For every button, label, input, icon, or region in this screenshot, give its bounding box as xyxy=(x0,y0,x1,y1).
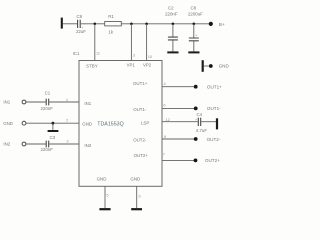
svg-text:GND: GND xyxy=(82,121,92,126)
node OUT1+ terminal xyxy=(194,84,222,89)
svg-text:C9: C9 xyxy=(76,14,82,19)
node OUT2- terminal xyxy=(194,137,221,142)
svg-text:C3: C3 xyxy=(49,135,55,140)
svg-text:VP2: VP2 xyxy=(143,62,152,67)
wire pin 5 to ground xyxy=(104,186,106,208)
capacitor C3 xyxy=(40,135,55,152)
svg-text:B+: B+ xyxy=(219,22,225,27)
svg-text:GND: GND xyxy=(3,121,13,126)
wire C9 to R1 xyxy=(81,23,105,25)
svg-text:9: 9 xyxy=(138,194,140,199)
svg-text:1: 1 xyxy=(66,97,68,102)
node IN2 terminal xyxy=(3,142,26,147)
svg-text:C1: C1 xyxy=(45,91,51,96)
svg-text:C4: C4 xyxy=(196,112,202,117)
ground bar pin 9 xyxy=(131,208,142,210)
svg-text:OUT1+: OUT1+ xyxy=(207,84,222,89)
svg-text:IN1: IN1 xyxy=(3,100,10,105)
wire VP1 drop xyxy=(130,24,132,61)
svg-text:2200uF: 2200uF xyxy=(188,11,203,16)
svg-text:6: 6 xyxy=(163,103,165,108)
svg-text:TDA1553Q: TDA1553Q xyxy=(97,122,124,128)
svg-text:OUT1+: OUT1+ xyxy=(133,81,148,86)
ground bar at C4 xyxy=(216,118,218,129)
svg-text:IN2: IN2 xyxy=(3,142,10,147)
wire IN1 to C1 xyxy=(26,101,46,103)
svg-text:GND: GND xyxy=(97,177,107,182)
node OUT1- terminal xyxy=(194,106,221,111)
svg-text:OUT2-: OUT2- xyxy=(133,138,147,143)
svg-text:3: 3 xyxy=(66,139,68,144)
svg-text:GND: GND xyxy=(219,64,230,69)
wire C4 to ground bar xyxy=(201,121,216,123)
wire pin 6 to OUT1- xyxy=(162,107,194,109)
wire GND terminal xyxy=(204,65,209,67)
node GND terminal xyxy=(209,64,230,69)
svg-text:C8: C8 xyxy=(190,5,196,10)
ground bar pin 5 xyxy=(99,208,110,210)
svg-text:LSP: LSP xyxy=(141,121,149,126)
node OUT2+ terminal xyxy=(194,158,221,163)
svg-text:220nF: 220nF xyxy=(40,147,53,152)
wire pin 7 to OUT2+ xyxy=(162,159,194,161)
svg-text:5: 5 xyxy=(106,193,108,198)
svg-text:2: 2 xyxy=(66,118,68,123)
wire C3 to pin 3 xyxy=(49,143,79,145)
svg-text:+: + xyxy=(82,26,84,30)
node VP2 junction xyxy=(145,23,148,26)
wire pin 9 to ground xyxy=(136,186,138,208)
wire R1 to B+ rail xyxy=(121,23,209,25)
wire GND input to pin 2 xyxy=(26,122,79,124)
capacitor C2 xyxy=(165,5,178,51)
wire pin 12 to C4 xyxy=(162,121,198,123)
svg-text:OUT2+: OUT2+ xyxy=(134,153,149,158)
node B+ terminal xyxy=(209,22,225,27)
svg-text:R1: R1 xyxy=(108,14,114,19)
svg-text:4.7uF: 4.7uF xyxy=(196,128,208,133)
ground bar at C9 xyxy=(61,18,63,29)
svg-text:STBY: STBY xyxy=(86,64,98,69)
node IN1 terminal xyxy=(3,100,26,105)
node C2 junction xyxy=(172,23,175,26)
svg-text:1k: 1k xyxy=(108,30,113,35)
node VP1 junction xyxy=(130,23,133,26)
svg-text:+: + xyxy=(195,118,197,122)
wire pin 8 to OUT2- xyxy=(162,138,194,140)
capacitor C1 xyxy=(40,91,53,111)
svg-text:OUT2+: OUT2+ xyxy=(205,158,220,163)
capacitor C9 xyxy=(76,14,86,34)
ground bar at C2 xyxy=(167,51,178,53)
wire IN2 to C3 xyxy=(26,143,46,145)
ground bar at C8 xyxy=(188,51,199,53)
wire C1 to pin 1 xyxy=(49,101,79,103)
svg-text:7: 7 xyxy=(163,151,165,156)
svg-text:220nF: 220nF xyxy=(40,106,53,111)
svg-text:GND: GND xyxy=(130,177,140,182)
capacitor C8 xyxy=(188,5,203,51)
node junction on GND wire xyxy=(52,122,55,125)
svg-text:IC1: IC1 xyxy=(73,51,80,56)
svg-text:IN2: IN2 xyxy=(84,143,91,148)
svg-text:OUT2-: OUT2- xyxy=(207,137,221,142)
svg-text:OUT1-: OUT1- xyxy=(133,107,147,112)
resistor R1 xyxy=(105,14,122,34)
svg-text:IN1: IN1 xyxy=(84,101,91,106)
svg-text:220nF: 220nF xyxy=(165,11,178,16)
wire VP2 drop xyxy=(146,24,148,61)
capacitor C4 xyxy=(195,112,207,133)
wire pin 4 to OUT1+ xyxy=(162,86,194,88)
node GND input terminal xyxy=(3,121,26,126)
svg-text:+: + xyxy=(195,34,197,38)
wire STBY drop to pin 11 xyxy=(94,24,96,61)
node STBY junction xyxy=(94,23,97,26)
svg-text:3: 3 xyxy=(133,53,135,58)
ground xyxy=(48,123,59,131)
wire ground bar to C9 xyxy=(63,23,77,25)
svg-text:VP1: VP1 xyxy=(127,62,136,67)
svg-text:OUT1-: OUT1- xyxy=(207,106,221,111)
ground bar at GND terminal xyxy=(202,60,204,72)
svg-text:8: 8 xyxy=(164,134,166,139)
op-amp U1 TDA1553Q body xyxy=(73,51,162,186)
svg-text:11: 11 xyxy=(96,50,100,55)
node C8 junction xyxy=(193,23,196,26)
svg-text:C2: C2 xyxy=(168,5,174,10)
